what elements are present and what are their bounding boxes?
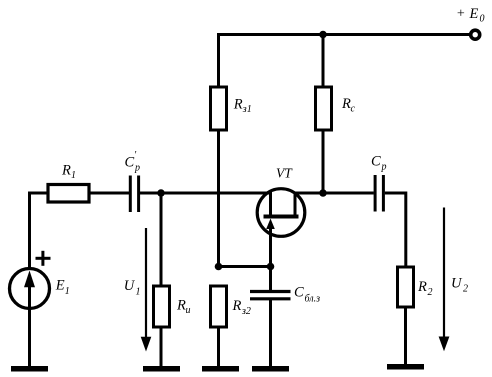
node input junction xyxy=(157,189,165,197)
label U1 xyxy=(124,278,141,297)
plus sign of E1 xyxy=(36,251,51,266)
svg-text:R: R xyxy=(176,298,186,314)
svg-text:R: R xyxy=(61,163,71,179)
resistor Rc xyxy=(316,87,332,130)
svg-text:0: 0 xyxy=(480,14,485,25)
wire top supply rail xyxy=(219,33,470,36)
svg-text:U: U xyxy=(124,278,136,294)
resistor Ru xyxy=(154,286,170,327)
svg-text:VT: VT xyxy=(276,166,293,181)
arrow U1 xyxy=(141,228,152,352)
svg-text:и: и xyxy=(186,305,191,316)
wire drain node to Cp xyxy=(323,192,374,195)
label +E0 xyxy=(456,6,485,25)
svg-text:E: E xyxy=(469,6,479,22)
resistor R2 xyxy=(398,267,414,307)
capacitor C'p xyxy=(130,176,138,213)
ground below Cblz xyxy=(252,366,289,372)
capacitor Cblz xyxy=(250,292,291,299)
wire Ru to ground xyxy=(160,327,163,367)
resistor R1 xyxy=(48,185,89,203)
node junction on rail at Rc xyxy=(319,31,327,39)
wire drain to drain node xyxy=(295,192,323,195)
wire source node down to Cblz xyxy=(269,267,272,291)
wire input node down to Ru xyxy=(160,193,163,286)
svg-text:бл.з: бл.з xyxy=(305,294,321,305)
source E1 arrow xyxy=(24,271,35,308)
arrow U2 xyxy=(439,208,450,352)
wire bias node to source node xyxy=(219,265,271,268)
svg-text:1: 1 xyxy=(71,170,76,181)
svg-text:C: C xyxy=(294,285,304,301)
ground below Rz2 xyxy=(202,366,239,372)
wire Rz1 bottom down across gate wire to bias node xyxy=(217,130,220,267)
wire E1 bottom to ground xyxy=(28,309,31,368)
label Cp xyxy=(371,154,387,173)
svg-text:с: с xyxy=(351,103,356,114)
label R1 xyxy=(61,163,76,182)
resistor Rz2 xyxy=(211,286,227,327)
wire Rz2 bottom to ground xyxy=(217,327,220,367)
svg-text:з1: з1 xyxy=(242,104,252,115)
svg-text:U: U xyxy=(451,276,463,292)
label C'p xyxy=(125,150,141,174)
transistor VT gate lead xyxy=(269,192,272,216)
svg-text:р: р xyxy=(381,162,387,173)
node drain junction xyxy=(319,189,327,197)
svg-text:1: 1 xyxy=(65,286,70,297)
label Rc xyxy=(341,96,356,114)
ground below Ru xyxy=(143,366,180,372)
label Cblz xyxy=(294,285,320,305)
wire rail junction down to Rc xyxy=(322,35,325,88)
label R2 xyxy=(417,279,433,298)
label Rz1 xyxy=(233,97,252,116)
svg-text:R: R xyxy=(232,298,242,314)
transistor VT source arrow xyxy=(266,219,275,267)
transistor VT channel bar xyxy=(264,215,299,219)
wire R1 to C'p xyxy=(89,192,129,195)
ground below R2 xyxy=(387,364,424,370)
source E1 circle xyxy=(10,269,50,309)
node bias junction left xyxy=(215,263,223,271)
wire Cblz bottom to ground xyxy=(269,300,272,367)
svg-text:R: R xyxy=(233,97,243,113)
label U2 xyxy=(451,276,468,295)
svg-text:C: C xyxy=(125,155,135,171)
wire Cp to output corner down to R2 xyxy=(385,193,406,267)
svg-text:R: R xyxy=(417,279,427,295)
svg-text:2: 2 xyxy=(463,284,468,295)
wire E1 top up to input corner xyxy=(30,193,49,268)
wire Rc bottom down to drain node xyxy=(322,130,325,193)
capacitor Cp xyxy=(375,175,383,212)
label E1 xyxy=(55,278,70,297)
svg-text:р: р xyxy=(134,163,140,174)
label Rz2 xyxy=(232,298,251,317)
transistor VT drain lead xyxy=(294,192,297,217)
node source junction xyxy=(267,263,275,271)
svg-text:1: 1 xyxy=(136,286,141,297)
resistor Rz1 xyxy=(211,87,227,130)
label VT xyxy=(276,166,293,181)
svg-text:E: E xyxy=(55,278,65,294)
terminal +E0 xyxy=(471,30,480,39)
svg-text:з2: з2 xyxy=(241,306,251,317)
svg-text:C: C xyxy=(371,154,381,170)
svg-text:R: R xyxy=(341,96,351,112)
wire R2 bottom to ground xyxy=(404,307,407,365)
svg-text:+: + xyxy=(456,7,465,22)
label Ru xyxy=(176,298,191,317)
ground below E1 xyxy=(11,366,48,372)
transistor VT body circle xyxy=(257,189,305,237)
wire from rail corner down to Rz1 xyxy=(217,33,220,87)
svg-text:2: 2 xyxy=(428,287,433,298)
wire gate: C'p to transistor gate xyxy=(140,192,272,195)
